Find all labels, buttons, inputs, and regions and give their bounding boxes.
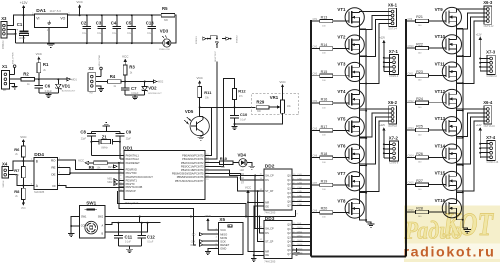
svg-text:C5: C5	[126, 21, 132, 26]
svg-text:PD5/T1/OC0B: PD5/T1/OC0B	[126, 185, 143, 189]
svg-text:CH15: CH15	[297, 248, 303, 250]
svg-text:RES: RES	[108, 166, 113, 169]
svg-text:VT1: VT1	[337, 7, 346, 12]
svg-text:VT6: VT6	[337, 144, 346, 149]
svg-text:X7-1: X7-1	[389, 49, 399, 54]
wire DD2 Q3 net CH4	[292, 187, 311, 189]
capacitor C6	[38, 79, 40, 85]
svg-text:DO: DO	[192, 233, 196, 236]
wire DD1 PD6 down	[118, 191, 247, 216]
svg-text:PB6/MISO/DO/PCINT6: PB6/MISO/DO/PCINT6	[177, 175, 204, 179]
svg-text:Q4: Q4	[287, 192, 291, 195]
wire encoder B	[105, 223, 148, 233]
wire VT16 source	[457, 213, 463, 220]
wire DD4 DI to DD1 TXD	[58, 186, 125, 188]
wire DD3 Q7 net CH16	[292, 253, 311, 255]
svg-text:CH6: CH6	[297, 196, 302, 198]
wire VT6 drain to X6-2.2	[359, 113, 387, 149]
svg-text:R16: R16	[321, 97, 328, 101]
svg-text:R1: R1	[43, 62, 49, 67]
wire +12V to X7-2	[383, 132, 385, 159]
svg-text:POWER: POWER	[1, 41, 3, 50]
wire DD3 Q4 net CH13	[292, 240, 311, 242]
watermark background	[404, 206, 500, 263]
svg-text:+12V: +12V	[20, 1, 29, 5]
VCC arrow (R11)	[199, 83, 201, 87]
svg-text:RE: RE	[51, 166, 55, 170]
wire LED to ground rail	[162, 42, 164, 44]
wire VT3 source	[359, 77, 366, 84]
wire DD3 Q1 net CH10	[292, 228, 311, 230]
ground (C7/VD2)	[132, 96, 138, 98]
wire CH15 tap from bus	[407, 184, 416, 186]
svg-text:C7: C7	[131, 86, 137, 91]
svg-text:R2: R2	[23, 72, 29, 77]
wire CH4 tap from bus	[312, 102, 320, 104]
wire DD4 RE/DE join	[58, 167, 71, 169]
svg-text:PB4/OC1B/PCINT4: PB4/OC1B/PCINT4	[181, 168, 204, 172]
svg-text:SH_CP: SH_CP	[265, 175, 274, 178]
test point (X1)	[13, 65, 16, 68]
svg-text:R8: R8	[14, 189, 20, 194]
svg-text:R3: R3	[129, 65, 135, 70]
svg-text:CH12: CH12	[408, 101, 415, 103]
svg-text:PB7/USCK/SCL/PCINT7: PB7/USCK/SCL/PCINT7	[175, 179, 204, 183]
svg-text:X7-3: X7-3	[486, 50, 496, 55]
svg-text:C12: C12	[147, 235, 155, 240]
bus link bottom	[311, 256, 406, 258]
net arrow RES	[113, 165, 117, 168]
svg-text:CH7: CH7	[297, 200, 302, 202]
wire DD3 Q6 net CH15	[292, 249, 311, 251]
wire DD2 Q2 net CH3	[292, 183, 311, 185]
ground (crystal, inverted)	[105, 122, 107, 124]
svg-text:R15: R15	[321, 70, 328, 74]
svg-text:Z1: Z1	[102, 135, 108, 140]
svg-text:MDL2 PWR: MDL2 PWR	[99, 54, 101, 66]
ground rail	[16, 42, 164, 44]
svg-text:VCC: VCC	[197, 76, 204, 80]
svg-text:R6: R6	[14, 147, 20, 152]
+12V arrow (X7-1)	[383, 42, 385, 44]
svg-text:R17: R17	[321, 125, 328, 129]
wire DD2 Q7 net CH8	[292, 205, 311, 207]
wire CH1 tap from bus	[312, 20, 320, 22]
wire VT10 source	[457, 49, 463, 56]
svg-text:RES: RES	[190, 244, 195, 247]
wire gate VT1	[333, 20, 349, 22]
svg-text:VCC: VCC	[122, 55, 129, 59]
wire VT5 source	[359, 131, 366, 138]
svg-text:COM5-8: COM5-8	[389, 162, 399, 165]
svg-text:OE: OE	[265, 205, 269, 208]
svg-text:OUT13-16: OUT13-16	[484, 125, 496, 128]
svg-text:R11: R11	[204, 90, 212, 95]
wire VT7 drain to X6-2.3	[359, 117, 387, 177]
svg-text:ST_CP: ST_CP	[265, 190, 273, 193]
svg-text:DS: DS	[265, 179, 269, 182]
wire gate VT11	[429, 74, 447, 76]
svg-text:74HC595: 74HC595	[264, 259, 276, 263]
wire VT2 source	[359, 49, 366, 56]
svg-text:OUT1-4: OUT1-4	[388, 27, 397, 30]
wire C11 branch vertical	[139, 217, 141, 223]
svg-text:SELFTEST: SELFTEST	[215, 50, 217, 62]
wire gate VT4	[333, 102, 349, 104]
svg-text:CH4: CH4	[313, 101, 318, 103]
svg-text:PB2/OC0A/PCINT2: PB2/OC0A/PCINT2	[181, 161, 204, 165]
wire jumper to DD1 PB1	[216, 45, 218, 48]
ground (VD5)	[198, 136, 204, 138]
zener diode VD2	[144, 82, 146, 87]
wire VT9 drain to X6-3.1	[457, 9, 485, 12]
wire CH2 tap from bus	[312, 47, 320, 49]
wire gate VT9	[429, 20, 447, 22]
wire gate VT6	[333, 157, 349, 159]
svg-text:PB5/MOSI/DI/SDA/PCINT5: PB5/MOSI/DI/SDA/PCINT5	[172, 172, 204, 176]
+12V arrow (X7-2)	[383, 130, 385, 132]
wire RE/DE to DD1	[70, 172, 124, 174]
wire XTAL2	[120, 158, 124, 160]
wire VD5 emitter to ground	[201, 136, 203, 138]
svg-text:R21: R21	[416, 15, 423, 19]
wire +12V to X7-4	[479, 132, 481, 158]
svg-text:C10: C10	[240, 112, 248, 117]
svg-text:MD1: MD1	[72, 78, 78, 81]
svg-text:VD5: VD5	[185, 109, 194, 114]
VCC arrow (R3)	[124, 61, 126, 65]
wire R2 to MD1	[35, 78, 68, 80]
wire gate VT12	[429, 102, 447, 104]
ground (left module)	[366, 222, 371, 224]
net arrow MD1	[67, 78, 71, 81]
wire encoder A	[105, 223, 161, 225]
svg-text:R14: R14	[321, 43, 328, 47]
wire gate VT8	[333, 211, 349, 213]
net arrow MD2 to DD1	[114, 182, 118, 185]
svg-text:Q1: Q1	[287, 179, 291, 182]
wire DD4 RO to DD1 RXD	[58, 160, 125, 169]
svg-text:R26: R26	[416, 152, 423, 156]
svg-text:VCC: VCC	[205, 214, 212, 218]
svg-text:22pF: 22pF	[126, 139, 132, 141]
wire common source (left module)	[365, 29, 367, 222]
wire gate VT5	[333, 129, 349, 131]
wire C7/VD2 ground	[125, 94, 145, 96]
svg-text:+12V: +12V	[476, 124, 482, 127]
svg-text:BZX284C4V7: BZX284C4V7	[148, 93, 162, 95]
svg-text:1117-5.0: 1117-5.0	[50, 9, 62, 13]
wire VT16 drain to X6-4.4	[457, 121, 485, 204]
svg-text:X6-2: X6-2	[388, 100, 398, 105]
svg-text:CH8: CH8	[297, 204, 302, 206]
svg-text:VCC: VCC	[220, 228, 226, 232]
svg-text:VD2: VD2	[148, 86, 157, 91]
svg-text:VO: VO	[60, 17, 65, 21]
svg-text:X6-1: X6-1	[388, 3, 398, 8]
wire VCC to MR pins	[248, 195, 264, 202]
svg-text:Q5: Q5	[287, 245, 291, 248]
net arrow MD2	[153, 80, 157, 83]
svg-text:VD4: VD4	[238, 153, 247, 158]
svg-text:74HC595: 74HC595	[264, 211, 276, 215]
wire VCC to X5	[208, 222, 219, 230]
svg-text:VT9: VT9	[435, 7, 444, 12]
svg-text:X6-4: X6-4	[483, 100, 493, 105]
wire X3 pins 2,3 to ground rail	[7, 30, 16, 43]
svg-text:CH4: CH4	[297, 187, 302, 189]
svg-text:CH2: CH2	[313, 46, 318, 48]
wire DD1 to DD2 SH_CP	[205, 170, 264, 176]
wires SW1 left to ground	[71, 217, 79, 227]
svg-text:CH14: CH14	[408, 155, 415, 157]
wire VT7 source	[359, 186, 366, 193]
svg-text:0.1uF: 0.1uF	[147, 242, 153, 244]
wire VT8 drain to X6-2.4	[359, 121, 387, 204]
svg-text:DO: DO	[240, 173, 244, 176]
wire VT15 source	[457, 186, 463, 193]
test point (X2)	[100, 67, 103, 70]
wire CH12 tap from bus	[407, 102, 416, 104]
ground (X1)	[12, 85, 18, 87]
svg-text:DS: DS	[265, 232, 269, 235]
ground (C6/VD1)	[45, 94, 51, 96]
wire VD4 to ground	[247, 163, 252, 167]
svg-text:CH15: CH15	[408, 183, 415, 185]
wire DD3 Q5 net CH14	[292, 245, 311, 247]
wire gate VT7	[333, 184, 349, 186]
wire VT12 drain to X6-3.4	[457, 21, 485, 94]
svg-text:DE: DE	[51, 172, 55, 176]
svg-text:C8: C8	[80, 129, 86, 134]
svg-text:radiokot.ru: radiokot.ru	[404, 245, 496, 260]
svg-text:R24: R24	[416, 97, 423, 101]
svg-text:R9: R9	[89, 165, 95, 170]
wire CH14 tap from bus	[407, 156, 416, 158]
VCC rail from DA1 output	[67, 14, 161, 16]
wire DD1 PB3 to R12	[205, 79, 235, 167]
svg-text:CH3: CH3	[313, 74, 318, 76]
svg-text:PA2/RESET: PA2/RESET	[126, 161, 140, 165]
svg-text:VCC: VCC	[36, 52, 43, 56]
svg-text:VD3: VD3	[160, 28, 169, 33]
svg-text:MD2: MD2	[158, 81, 164, 84]
svg-text:MD1: MD1	[107, 177, 113, 180]
wire DD2 Q7' cascade to DD3 DS	[295, 210, 297, 217]
wire crystal top rail	[91, 131, 120, 133]
svg-text:MDL1 PWR: MDL1 PWR	[12, 52, 14, 64]
svg-text:CH11: CH11	[408, 73, 414, 75]
wire CH10 tap from bus	[407, 47, 416, 49]
wire DD1 to DD2 ST_CP	[205, 177, 264, 191]
wire X3 pin1 to +12V rail	[7, 15, 35, 25]
svg-text:CH1: CH1	[297, 174, 302, 176]
svg-text:VT7: VT7	[337, 171, 346, 176]
svg-text:C9: C9	[126, 129, 132, 134]
svg-text:VD1: VD1	[62, 83, 71, 88]
ground (right module)	[463, 228, 468, 230]
svg-text:X7-4: X7-4	[486, 135, 496, 140]
svg-text:MR: MR	[265, 250, 269, 253]
ground arrow below R8	[22, 202, 25, 205]
ground (OE)	[251, 258, 257, 260]
wire +12V to X7-3	[479, 41, 481, 70]
svg-text:MD2: MD2	[107, 181, 113, 184]
svg-text:DI: DI	[53, 184, 56, 188]
svg-text:CLK: CLK	[239, 177, 244, 180]
wire VR1 bottom	[235, 113, 283, 124]
wire CH16 tap from bus	[407, 211, 416, 213]
wire CH8 tap from bus	[312, 211, 320, 213]
DD1 left pin stubs	[119, 179, 125, 181]
wire VT3 drain to X6-1.3	[359, 19, 387, 67]
svg-text:CH5: CH5	[313, 128, 318, 130]
ground (VD4)	[249, 165, 255, 167]
wires X1	[9, 73, 14, 75]
ground (X2)	[98, 88, 104, 90]
svg-text:+12V: +12V	[379, 124, 385, 127]
wire DA1 ground pin	[48, 28, 50, 43]
wire DD2 Q5 net CH6	[292, 196, 311, 198]
wire DD2 Q4 net CH5	[292, 192, 311, 194]
svg-text:VT5: VT5	[337, 116, 346, 121]
svg-text:Q6: Q6	[287, 200, 291, 203]
svg-text:C6: C6	[45, 84, 51, 89]
wire gate VT3	[333, 75, 349, 77]
svg-text:ST_CP: ST_CP	[265, 240, 273, 243]
wire VT4 source	[359, 104, 366, 111]
svg-text:R4: R4	[110, 74, 116, 79]
svg-text:0.1uF: 0.1uF	[127, 33, 133, 35]
svg-text:PD6/ICP: PD6/ICP	[126, 189, 136, 193]
wire VT5 drain to X6-2.1	[359, 109, 387, 122]
svg-text:Q7: Q7	[287, 205, 291, 208]
wire CH9 tap from bus	[407, 20, 416, 22]
svg-text:VT3: VT3	[337, 62, 346, 67]
svg-text:0.1uF: 0.1uF	[147, 33, 153, 35]
svg-text:Q0: Q0	[287, 224, 291, 227]
svg-text:ST: ST	[241, 181, 245, 184]
svg-text:BZX284C4V7: BZX284C4V7	[62, 91, 76, 93]
svg-text:PD2/INT0/XCK/CKOUT: PD2/INT0/XCK/CKOUT	[126, 175, 154, 179]
wire gate VT10	[429, 47, 447, 49]
svg-text:R23: R23	[416, 70, 423, 74]
svg-text:0.1uF: 0.1uF	[125, 242, 131, 244]
wire VT9 source	[457, 22, 463, 29]
svg-text:R5: R5	[162, 6, 168, 11]
+12V arrow (X7-4)	[479, 130, 481, 132]
svg-text:PD1/TXD: PD1/TXD	[126, 171, 137, 175]
wire IR signal to DD1 PB0	[200, 107, 212, 155]
svg-text:680: 680	[164, 19, 169, 22]
svg-text:DA1: DA1	[36, 8, 46, 14]
ground (C11/C12)	[126, 248, 133, 250]
svg-text:C11: C11	[125, 235, 133, 240]
wire C6/VD1 ground	[39, 92, 59, 94]
wire DD2 Q6 net CH7	[292, 200, 311, 202]
wires X2	[96, 76, 101, 78]
svg-text:R19: R19	[321, 179, 328, 183]
svg-text:CH6: CH6	[313, 156, 318, 158]
wire gate VT2	[333, 47, 349, 49]
svg-text:X7-2: X7-2	[389, 135, 399, 140]
svg-text:SCK: SCK	[220, 239, 226, 243]
svg-text:VI: VI	[36, 17, 39, 21]
analog wire	[212, 106, 235, 108]
svg-text:Q3: Q3	[287, 188, 291, 191]
svg-text:R12: R12	[238, 89, 246, 94]
wire +12V to X7-1	[383, 44, 385, 71]
svg-text:+12V: +12V	[379, 37, 385, 40]
svg-text:CH8: CH8	[313, 210, 318, 212]
+12V supply arrow	[23, 8, 25, 16]
wire X4 pin1 to B	[9, 161, 34, 170]
svg-text:OUT9-12: OUT9-12	[484, 25, 495, 28]
svg-text:CH9: CH9	[297, 223, 302, 225]
svg-text:RESET: RESET	[220, 243, 229, 247]
wire clock bus to DD3	[255, 176, 264, 229]
ground (SW1)	[68, 232, 74, 234]
wire DD2 Q1 net CH2	[292, 179, 311, 181]
svg-text:OE: OE	[265, 254, 269, 257]
svg-text:PA0/XTAL1: PA0/XTAL1	[126, 153, 140, 157]
VCC arrow (DD2 MR)	[247, 192, 249, 195]
svg-text:MAX485: MAX485	[34, 190, 45, 194]
wire gate VT15	[429, 184, 447, 186]
svg-text:VCC: VCC	[245, 185, 252, 189]
wire DD1 PB2 to R10	[205, 162, 220, 164]
svg-text:Q2: Q2	[287, 232, 291, 235]
svg-text:C3: C3	[96, 21, 102, 26]
svg-text:VCC: VCC	[76, 0, 83, 4]
VCC arrow (R6)	[22, 142, 24, 147]
wire R5 to LED	[171, 15, 176, 43]
svg-text:Q3: Q3	[287, 236, 291, 239]
svg-text:0.1uF: 0.1uF	[240, 120, 246, 122]
svg-text:Q7: Q7	[287, 253, 291, 256]
svg-text:C1: C1	[17, 22, 23, 27]
wire VT8 source	[359, 213, 366, 220]
svg-text:MR: MR	[265, 201, 269, 204]
svg-text:Q5: Q5	[287, 196, 291, 199]
wire VT11 source	[457, 76, 463, 83]
svg-text:B: B	[36, 159, 38, 163]
wire VT1 drain to X6-1.1	[359, 12, 387, 13]
wire VT2 drain to X6-1.2	[359, 15, 387, 40]
wire C11/C12 ground	[118, 245, 141, 247]
wire VD5 collector	[200, 116, 203, 118]
wire VT10 drain to X6-3.2	[457, 13, 485, 40]
bus 2 (right module vertical)	[405, 19, 407, 257]
svg-text:COM9-12: COM9-12	[487, 75, 498, 78]
svg-text:VCC: VCC	[21, 208, 26, 210]
wire CH7 tap from bus	[312, 184, 320, 186]
svg-text:CH9: CH9	[408, 19, 413, 21]
VCC arrow (VR1)	[282, 87, 284, 90]
svg-text:X1: X1	[2, 64, 8, 69]
svg-text:COM1-4: COM1-4	[389, 75, 399, 78]
VCC arrow (X5)	[207, 221, 209, 224]
svg-text:CH3: CH3	[297, 183, 302, 185]
wire gate VT14	[429, 156, 447, 158]
wire VT1 source	[359, 22, 366, 29]
svg-text:MODE2: MODE2	[236, 34, 238, 43]
wire VT13 source	[457, 131, 463, 138]
wire X4 pin2 to A	[9, 175, 34, 186]
wire CH5 tap from bus	[312, 129, 320, 131]
wire DD3 Q0 net CH9	[292, 224, 311, 226]
svg-text:8MHz: 8MHz	[101, 147, 108, 150]
